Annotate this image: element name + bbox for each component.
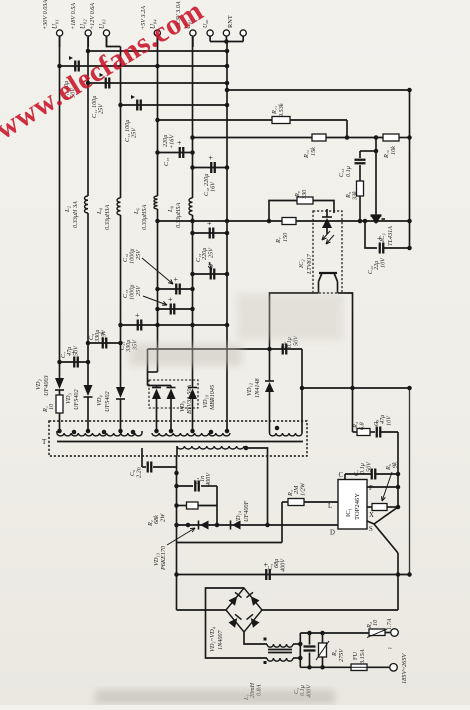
diode VD3 UF5402 (84, 385, 93, 396)
wire C24 to R9 (359, 165, 361, 181)
resistor R3 2M 1/2W (282, 501, 288, 503)
wire feedback y137 (193, 137, 313, 139)
svg-text:0.33μH 3A: 0.33μH 3A (72, 201, 79, 228)
wire R11 branch y120 (158, 119, 273, 121)
svg-text:+: + (135, 311, 140, 320)
svg-text:L₂: L₂ (64, 205, 71, 213)
svg-text:VD₄: VD₄ (96, 395, 103, 406)
optocoupler phototransistor (319, 272, 337, 274)
svg-text:400V: 400V (280, 558, 287, 572)
wire R10 to rail (399, 137, 410, 139)
svg-text:U₀₁: U₀₁ (52, 19, 59, 29)
svg-text:UF5402: UF5402 (73, 389, 80, 410)
wire S to primary return (397, 553, 399, 610)
capacitor C17 220u 16V (209, 228, 211, 239)
wire y233 with C17 (193, 232, 228, 234)
wire right feedback rail upper (409, 90, 411, 249)
resistor R1 10 (56, 395, 63, 413)
diode VD4 UF5402 (116, 387, 125, 398)
svg-text:UF400F: UF400F (243, 500, 250, 522)
output terminal U05 (190, 30, 196, 36)
svg-text:0.33μH3A: 0.33μH3A (104, 205, 111, 230)
svg-text:2.2n: 2.2n (136, 467, 143, 478)
inductor L1 choke winding A (267, 644, 293, 647)
wire bias snubber y349 (148, 348, 303, 350)
svg-text:C₁₅: C₁₅ (163, 158, 170, 166)
capacitor C19 220u 25V (210, 269, 212, 280)
capacitor C20 22u 10V (379, 243, 381, 254)
svg-text:+: + (168, 295, 173, 304)
svg-text:2W: 2W (160, 513, 167, 522)
capacitor C2 X-cap 0.1u 400V (309, 633, 311, 645)
svg-text:15k: 15k (310, 147, 317, 156)
svg-text:0.33μH5A: 0.33μH5A (141, 205, 148, 230)
svg-text:RNT: RNT (227, 15, 234, 28)
varistor R5 275V (322, 633, 324, 643)
wire C4 to drop (201, 485, 217, 487)
wire y152 with C15 (158, 152, 193, 154)
capacitor C15 220u 16V (179, 147, 181, 158)
wire to AC terminal 2 (367, 666, 389, 668)
capacitor C7b 0.1u 50V (371, 469, 373, 480)
wire y343 with C9 (88, 342, 121, 344)
wire bus y325 with C21 (121, 324, 228, 326)
inductor L4 0.33uH 3A (117, 198, 120, 215)
svg-text:25V: 25V (101, 329, 108, 340)
svg-text:150: 150 (282, 232, 289, 242)
wire filter left vertical (299, 633, 301, 667)
fuse FU 3.15A (351, 664, 367, 671)
svg-text:33k: 33k (352, 191, 359, 201)
wire X pin stub (367, 506, 372, 508)
svg-text:L₈: L₈ (167, 205, 174, 213)
svg-text:16V: 16V (210, 181, 217, 192)
output terminal aux1 (207, 30, 213, 36)
wire AC bottom y667 (300, 666, 351, 668)
capacitor C9 330u 25V (102, 338, 104, 349)
svg-text:25V: 25V (135, 285, 142, 296)
svg-text:25V: 25V (131, 127, 138, 138)
svg-text:0.1μ: 0.1μ (345, 166, 352, 177)
wire R4 row y432 (353, 431, 358, 433)
capacitor C21 330u 35V (137, 320, 139, 331)
svg-text:VD₁₂: VD₁₂ (246, 382, 253, 396)
wire bridge minus y610 (177, 609, 227, 611)
capacitor C6 2.2n (141, 448, 143, 467)
transformer bias winding (270, 433, 303, 436)
svg-text:C₂₄: C₂₄ (338, 169, 345, 177)
wire R11 to node (290, 119, 347, 121)
svg-text:10V: 10V (380, 257, 387, 268)
svg-text:VD₃: VD₃ (65, 393, 72, 404)
inductor L2 0.33uH 3A (85, 196, 88, 213)
svg-text:~: ~ (388, 645, 392, 653)
diode VD12 1N4148 (269, 349, 271, 381)
wire X rail vertical (397, 432, 399, 507)
bridge diode top-left (229, 596, 238, 606)
svg-text:10: 10 (372, 619, 379, 626)
svg-text:F: F (369, 485, 373, 492)
capacitor C24 0.1u (355, 159, 366, 161)
svg-text:S: S (369, 526, 373, 533)
svg-text:9.53k: 9.53k (278, 103, 285, 117)
wire BYV32 cathode bus (148, 385, 172, 387)
svg-text:400V: 400V (205, 472, 212, 486)
svg-text:U₀₂: U₀₂ (80, 19, 87, 29)
svg-text:10V: 10V (386, 415, 393, 426)
wire bulk bus y574 (177, 574, 410, 576)
wire right feedback rail lower (409, 388, 411, 575)
inductor L1 choke winding B (267, 658, 293, 661)
IC U1 TOP246Y box (338, 480, 367, 530)
svg-text:+16V: +16V (169, 134, 176, 149)
output terminal RNT (240, 30, 246, 36)
wire +30V rail (59, 37, 61, 378)
wire opto collector leg (338, 293, 353, 387)
svg-text:25V: 25V (208, 247, 215, 258)
svg-text:VD₁~VD₄: VD₁~VD₄ (209, 627, 216, 652)
svg-text:VD₉: VD₉ (179, 401, 186, 412)
resistor R2 68k 2W (177, 505, 187, 507)
wire terminal stubs (59, 36, 61, 47)
scan noise (95, 690, 335, 704)
resistor R6 9k (372, 504, 387, 511)
wire bridge AC loop (206, 588, 268, 658)
svg-text:+30V 0.03A: +30V 0.03A (42, 0, 49, 30)
wire bridge plus y610 (262, 609, 398, 611)
wire y274 with C19 (193, 273, 228, 275)
svg-text:9k: 9k (392, 462, 399, 468)
svg-text:VD₂: VD₂ (35, 378, 42, 390)
diode VD9b BYV32 (167, 389, 176, 400)
dashed box optocoupler LTV817 (313, 211, 342, 293)
wire choke to filter (293, 643, 300, 645)
svg-text:25V: 25V (135, 249, 142, 260)
output terminal U01 (57, 30, 63, 36)
capacitor C12 100u 25V (105, 78, 107, 89)
svg-text:TOP246Y: TOP246Y (354, 493, 361, 520)
resistor R8 330 (297, 197, 313, 204)
wire bus y50 (88, 50, 227, 52)
svg-text:+: + (377, 234, 382, 243)
svg-text:R₁₂: R₁₂ (303, 150, 310, 159)
svg-text:P6KE170: P6KE170 (160, 545, 167, 571)
diode VD2 UF4003 (55, 378, 64, 389)
svg-text:C: C (339, 472, 344, 479)
wire bias right leg (301, 349, 303, 431)
capacitor C8 47u 10V (376, 427, 378, 438)
svg-text:10: 10 (48, 403, 55, 410)
wire +5V rail jog to rectifier bracket (148, 371, 158, 373)
svg-text:T: T (42, 438, 47, 446)
wire bracket joining aux terminals to return rail (210, 41, 243, 43)
output terminal U03 (103, 30, 109, 36)
inductor L6 0.33uH 5A (154, 196, 157, 209)
svg-text:R₁₁: R₁₁ (271, 106, 278, 115)
transformer secondary winding 1 (57, 433, 142, 436)
wire y289 with C16 (158, 288, 193, 290)
capacitor C13 100u 25V (136, 100, 138, 111)
wire +12V rail with jog (107, 37, 121, 47)
output terminal U04 (154, 30, 160, 36)
svg-text:UF5402: UF5402 (104, 391, 111, 412)
wire opto emitter leg (270, 293, 319, 349)
bridge diode bottom-right (251, 618, 260, 628)
wire regulation bus y221 (158, 220, 410, 222)
svg-text:+18V 0.5A: +18V 0.5A (70, 3, 77, 30)
resistor R11 9.53k (272, 117, 290, 124)
wire y362 with C7 (60, 361, 89, 363)
svg-text:R₇: R₇ (275, 237, 282, 244)
wire C20 to rail (384, 247, 410, 249)
TL431 symbol (371, 214, 382, 216)
transformer secondary winding 2 (152, 433, 230, 436)
capacitor C11 10u 50V (74, 61, 76, 72)
svg-text:UF4003: UF4003 (43, 375, 50, 396)
bridge diode top-right (251, 596, 260, 606)
inductor L1 core lines (268, 649, 292, 651)
svg-text:L₄: L₄ (96, 207, 103, 215)
svg-text:3.15A: 3.15A (359, 649, 366, 665)
svg-text:LTV817: LTV817 (306, 253, 313, 275)
wire C8 to X rail (381, 431, 399, 433)
wire F pin stub (367, 486, 398, 488)
wire bus y90 to feedback (227, 89, 410, 91)
wire y309 with C14 (158, 308, 193, 310)
optocoupler LED emission arrows (322, 231, 330, 240)
wire bus y105 with C13 (121, 104, 228, 106)
capacitor C4 1n 400V (194, 481, 196, 492)
wire bus y66 with C11 (60, 65, 228, 67)
wire bridge bottom to choke (244, 632, 267, 644)
svg-text:X: X (369, 512, 374, 519)
wire y167 with C18 (193, 167, 228, 169)
svg-text:25V: 25V (98, 103, 105, 114)
svg-text:U₀₃: U₀₃ (99, 19, 106, 29)
diode VD10 MBR1045 (188, 389, 197, 400)
svg-text:D: D (330, 530, 335, 537)
wire bus y83 with C12 (88, 82, 227, 84)
capacitor C14 1000u 25V (170, 304, 172, 315)
AC terminal 1 (391, 629, 399, 637)
svg-text:L: L (328, 503, 332, 510)
diode VD13 P6KE170 (198, 521, 200, 530)
svg-text:1N4148: 1N4148 (254, 377, 261, 398)
svg-text:330: 330 (301, 189, 308, 200)
wire AC top y633 (300, 632, 369, 634)
optocoupler LED (326, 209, 328, 217)
svg-text:FU: FU (352, 652, 359, 660)
wire primary right leg (244, 448, 268, 525)
svg-text:1.7A: 1.7A (386, 618, 393, 630)
svg-text:1/2W: 1/2W (300, 482, 307, 496)
capacitor C5 68u 400V (265, 569, 267, 580)
wire C24 stub (360, 150, 376, 152)
wire R8 left leg (269, 201, 297, 222)
svg-text:+: + (177, 139, 182, 148)
svg-text:0.33μH5A: 0.33μH5A (175, 203, 182, 228)
wire bias drop to R6.8 (352, 388, 354, 432)
svg-text:+12V 0.6A: +12V 0.6A (89, 3, 96, 30)
wire to AC terminal 1 (385, 632, 390, 634)
svg-text:185V~265V: 185V~265V (401, 652, 408, 684)
svg-text:10k: 10k (390, 146, 397, 155)
wire R12 to R10 node (326, 137, 383, 139)
svg-text:VD₁₄: VD₁₄ (235, 511, 242, 524)
wire R3 left leg (281, 502, 283, 543)
wire clamp return y542 (177, 542, 283, 544)
inductor L8 0.33uH 5A (189, 198, 192, 215)
svg-text:IC₂: IC₂ (298, 259, 305, 269)
svg-text:+: + (209, 154, 214, 163)
wire clamp bus y525 (177, 524, 339, 526)
output terminal aux2 (223, 30, 229, 36)
wire control y474 with C6b (345, 473, 371, 475)
AC terminal 2 (390, 664, 398, 672)
svg-text:VD₁₃: VD₁₃ (153, 553, 160, 566)
wire primary left rail (176, 456, 178, 611)
wire TL431 cathode branch (375, 138, 377, 217)
diode VD14 UF400F (230, 521, 232, 530)
bridge rectifier VD1-VD4 (226, 588, 262, 632)
svg-text:BYV32-50A: BYV32-50A (186, 385, 193, 414)
wire +3.3V rail (192, 37, 194, 198)
wire C pin (344, 474, 346, 480)
capacitor C7 47u 50V (73, 357, 75, 368)
svg-text:50V: 50V (366, 461, 373, 472)
wire R4 to C8 (370, 431, 375, 433)
transformer primary winding (177, 446, 244, 449)
resistor R4 6.8 (357, 429, 370, 436)
wire R9 to y221 (359, 196, 361, 221)
capacitor C18 220u 16V (210, 162, 212, 173)
capacitor C16 1000u 25V (175, 284, 177, 295)
svg-text:L₆: L₆ (133, 208, 140, 215)
svg-text:275V: 275V (338, 648, 345, 662)
svg-text:50V: 50V (73, 345, 80, 356)
wire clamp y486 with C4 (177, 485, 194, 487)
wire bias feed y388 (302, 387, 410, 389)
svg-text:R₅: R₅ (331, 650, 338, 657)
svg-text:R₈: R₈ (294, 191, 301, 198)
capacitor C10 bias (282, 344, 284, 355)
dashed box BYV32-50A (149, 380, 198, 408)
resistor R12 15k (312, 134, 326, 141)
wire return rail (226, 42, 228, 432)
resistor R7 150 (282, 218, 296, 225)
wire S pin diagonal (367, 521, 374, 524)
wire +5V rail (157, 37, 159, 196)
thermistor R4b 10 1.7A (369, 629, 385, 636)
dashed box transformer T (49, 421, 307, 456)
svg-text:IC₁: IC₁ (345, 508, 352, 517)
wire C20 branch (365, 221, 377, 248)
svg-text:R₁₀: R₁₀ (383, 150, 390, 159)
diode VD9a BYV32 (152, 389, 161, 400)
resistor R9 33k (357, 181, 364, 196)
svg-text:TL431A: TL431A (387, 226, 394, 246)
svg-text:VD₁₀: VD₁₀ (202, 395, 209, 408)
choke phase dots (264, 638, 267, 641)
bridge diode bottom-left (229, 618, 238, 628)
resistor R10 10k (383, 134, 399, 141)
svg-text:+: + (174, 275, 179, 284)
svg-text:1N4007: 1N4007 (217, 629, 224, 650)
svg-text:6.8: 6.8 (359, 421, 366, 430)
svg-text:MBR1045: MBR1045 (209, 385, 216, 411)
wire +18V rail (87, 37, 89, 196)
output terminal U02 (85, 30, 91, 36)
wire R8 right leg (313, 201, 334, 214)
